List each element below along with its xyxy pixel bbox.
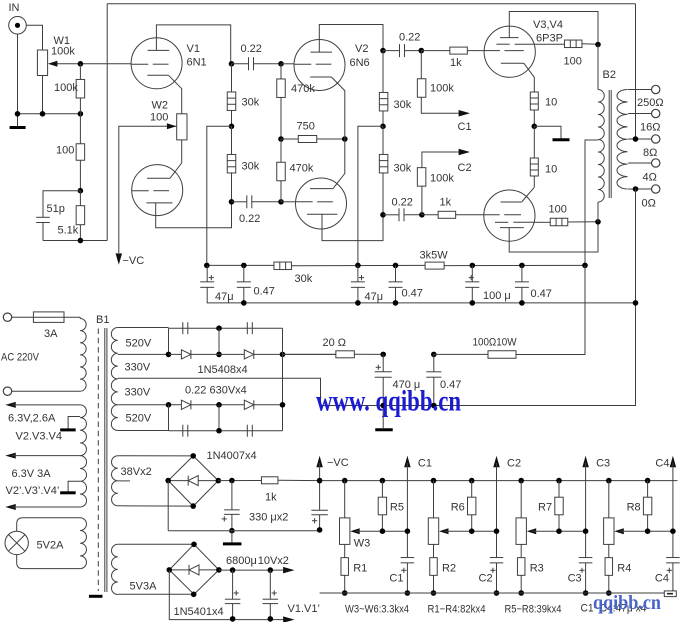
capacitor C1	[401, 557, 415, 559]
node VC gnd	[317, 527, 323, 533]
lamp 5V2A	[5, 531, 28, 554]
capacitor C3	[579, 557, 593, 559]
wire tap 250	[628, 89, 652, 91]
inductor B1 lamp winding	[80, 518, 86, 569]
node grid V2b	[278, 199, 284, 205]
capacitor 0.47 psu	[426, 371, 441, 373]
grid V1b	[132, 190, 149, 192]
node V1a coupling	[229, 61, 235, 67]
ground bias supply	[223, 542, 242, 545]
svg-text:IN: IN	[9, 2, 20, 14]
plus C2	[490, 569, 495, 571]
svg-text:0.47: 0.47	[254, 286, 275, 298]
resistor R6	[468, 497, 476, 515]
arrow C3 top	[582, 456, 589, 467]
plus 330u	[222, 518, 227, 520]
wire 100a to node	[582, 43, 598, 45]
svg-text:750: 750	[297, 121, 315, 133]
wire 1k v3 right	[467, 50, 484, 52]
node gnd 1	[241, 300, 247, 306]
wire C2 shaft	[496, 463, 498, 557]
arrow C2 mid	[459, 149, 470, 156]
wire 0.47 a top	[243, 265, 245, 282]
plus 6800u a	[234, 592, 239, 594]
terminal end box	[664, 591, 676, 597]
node bottom C4	[670, 590, 676, 596]
svg-text:W2: W2	[152, 100, 169, 112]
node bridge2 right	[216, 567, 222, 573]
resistor 30k a	[227, 92, 236, 111]
svg-text:47μ: 47μ	[215, 291, 234, 303]
wire 30k b bottom	[231, 172, 233, 201]
svg-text:6N6: 6N6	[350, 57, 370, 69]
grid V1a	[131, 63, 148, 65]
node rail 1	[204, 263, 210, 269]
arrow heater2 b	[5, 504, 15, 510]
node rail 3	[355, 263, 361, 269]
wire R5 top	[381, 481, 383, 498]
wire rect to 20ohm	[283, 353, 336, 355]
wire 330u bottom	[231, 514, 233, 530]
wire R6 bottom	[471, 515, 473, 531]
node bias rail vc	[317, 478, 323, 484]
wire 10b bottom	[533, 176, 535, 187]
svg-text:R5: R5	[390, 502, 404, 514]
wire W5 top	[520, 481, 522, 518]
inductor B1 HV secondary	[111, 328, 117, 431]
node B+ cap2	[431, 352, 437, 358]
resistor 100 screen V3	[564, 40, 582, 48]
wire 0 ohm ground drop	[434, 189, 636, 406]
arrow C4 top	[670, 456, 677, 467]
resistor R2	[430, 558, 438, 576]
svg-text:8Ω: 8Ω	[643, 147, 657, 159]
svg-text:V3,V4: V3,V4	[533, 19, 563, 31]
wire rect mid v1	[218, 328, 220, 354]
wire 10b top	[533, 126, 535, 158]
svg-text:330V: 330V	[125, 362, 151, 374]
node 6800 a top	[230, 567, 236, 573]
cathode bar V2b	[307, 213, 337, 215]
wire 100ohm to CT riser	[516, 265, 585, 354]
capacitor 0.47 b	[389, 281, 403, 283]
wire 5.1k bottom	[79, 225, 81, 241]
anode lead V1b diagonal	[170, 163, 182, 178]
wire C3 bottom	[585, 563, 587, 593]
wire 47u a bottom	[206, 287, 208, 303]
potentiometer W6	[604, 518, 614, 545]
wire 51p bottom	[42, 223, 44, 241]
svg-text:V1: V1	[187, 43, 200, 55]
svg-text:C4: C4	[655, 458, 669, 470]
wire feedback right drop to 8-ohm tap	[635, 4, 637, 139]
wire C1 shaft	[406, 463, 408, 557]
resistor 1k bias	[261, 477, 278, 484]
node bottom R4	[606, 590, 612, 596]
svg-text:C2: C2	[479, 573, 493, 585]
node bottom C2	[494, 590, 500, 596]
svg-text:16Ω: 16Ω	[640, 122, 660, 134]
wire W1 wiper	[53, 63, 80, 65]
arrow heater1 a	[5, 402, 15, 408]
svg-text:W3~W6:3.3kx4: W3~W6:3.3kx4	[345, 604, 409, 616]
plus 47u b	[359, 277, 364, 279]
wire VC cap bottom	[319, 515, 321, 531]
plus 470u	[376, 366, 381, 368]
wire 0.47 c top	[521, 265, 523, 282]
capacitor 0.22 d	[398, 208, 400, 221]
capacitor 6800u b	[263, 598, 279, 600]
wire rect row3	[169, 404, 283, 406]
wire R7 bottom	[558, 515, 560, 531]
capacitor 100u	[465, 281, 479, 283]
capacitor rect c2	[246, 322, 248, 334]
anode bar V3	[500, 37, 519, 39]
resistor R5	[378, 497, 386, 515]
wire 10a bottom	[533, 110, 535, 126]
wire B2 center tap	[585, 140, 598, 265]
tube V3 output	[484, 26, 535, 77]
inductor B1 heater2	[80, 456, 86, 507]
wire R1 bottom	[344, 575, 346, 593]
capacitor 330u	[224, 509, 240, 511]
resistor 10 V3	[530, 92, 538, 110]
ground B1 core	[89, 595, 103, 598]
wire 30k d top	[382, 126, 384, 155]
resistor R7	[555, 497, 563, 515]
wiper arrow W4	[439, 528, 449, 534]
node rect row3 right	[280, 402, 286, 408]
wire screen V3 to 100	[535, 43, 564, 45]
ground heater2 CT	[60, 491, 76, 494]
resistor 100 cathode V1	[76, 144, 85, 161]
wire 5V bottom tap	[118, 593, 194, 595]
wire rect row4	[169, 430, 283, 432]
wire 100k top	[79, 64, 81, 80]
capacitor C2	[490, 557, 504, 559]
wire cathode gnd jog	[534, 126, 561, 139]
wire 30k a top	[231, 64, 233, 92]
resistor R4	[605, 558, 613, 576]
svg-text:1N5408x4: 1N5408x4	[198, 364, 248, 376]
node bridge1 left	[165, 478, 171, 484]
cathode bar V1a	[147, 74, 168, 76]
node psu gnd junction2	[431, 403, 437, 409]
wire 100 top	[79, 114, 81, 144]
svg-text:6800μ 10Vx2: 6800μ 10Vx2	[226, 555, 289, 567]
node bias rail W2	[431, 478, 437, 484]
wire wiper row 1	[356, 530, 408, 532]
wire 30k a bottom	[231, 111, 233, 127]
wire rect left v2	[168, 405, 170, 431]
wire wiper row 3	[532, 530, 585, 532]
wire W6 top	[608, 481, 610, 518]
inductor B2 primary	[598, 90, 604, 203]
wire R6 top	[471, 481, 473, 498]
wire tap 330a	[118, 353, 169, 355]
plus C4	[667, 569, 672, 571]
resistor R8	[643, 497, 651, 515]
resistor 470k a	[277, 79, 286, 98]
node 330u gnd	[229, 528, 235, 534]
tube V1 upper triode	[131, 38, 182, 89]
resistor 30k b	[227, 154, 236, 173]
wire 30k b top	[231, 126, 233, 155]
wire cap b right	[252, 201, 281, 203]
wire R8 top	[647, 481, 649, 498]
tube V2 upper triode	[294, 40, 345, 91]
svg-text:100 μ: 100 μ	[483, 290, 511, 302]
node 750 left	[278, 136, 284, 142]
capacitor 0.47 c	[515, 281, 529, 283]
wire 0.47 b bottom	[395, 287, 397, 303]
svg-text:30k: 30k	[394, 163, 412, 175]
terminal 4 ohm	[652, 159, 660, 167]
svg-text:0.22 630Vx4: 0.22 630Vx4	[185, 385, 247, 397]
node wiper R6	[469, 528, 475, 534]
svg-text:6P3P: 6P3P	[536, 33, 563, 45]
svg-text:100: 100	[150, 112, 168, 124]
svg-text:30k: 30k	[394, 99, 412, 111]
plus C3	[579, 569, 584, 571]
plus 47u a	[209, 277, 214, 279]
wire C2 bottom	[496, 563, 498, 593]
node grid V1a	[78, 61, 84, 67]
wire 0.47 a bottom	[243, 287, 245, 303]
svg-text:V2: V2	[355, 43, 368, 55]
svg-text:C3: C3	[568, 573, 582, 585]
capacitor rect c4	[246, 425, 248, 437]
wire jack ground drop	[17, 34, 19, 126]
svg-text:6.3V 3A: 6.3V 3A	[12, 468, 52, 480]
wire C4 bottom	[672, 563, 674, 593]
plus C1	[401, 569, 406, 571]
svg-text:B1: B1	[96, 314, 109, 326]
resistor 10 V4	[530, 158, 538, 176]
svg-text:0Ω: 0Ω	[642, 198, 656, 210]
node bias rail R4	[645, 478, 651, 484]
svg-text:330 μx2: 330 μx2	[249, 512, 288, 524]
svg-text:www. qqibb.cn: www. qqibb.cn	[316, 385, 461, 418]
grid V2a	[294, 63, 311, 65]
svg-text:47μ: 47μ	[365, 291, 384, 303]
wire 1k v4 right	[456, 214, 484, 216]
node 330u top	[229, 478, 235, 484]
wiper arrow W2	[167, 123, 177, 129]
capacitor rect c3	[182, 425, 184, 437]
arrow heater2 a	[5, 453, 15, 459]
terminal 250 ohm	[652, 85, 660, 93]
node gnd 6	[633, 300, 639, 306]
node rect row2 left	[166, 352, 172, 358]
node wiper C4 line	[670, 528, 676, 534]
potentiometer W5	[516, 518, 526, 545]
potentiometer W2	[177, 114, 187, 140]
wire to 51p branch	[43, 191, 80, 218]
cathode lead V2b	[322, 214, 383, 240]
capacitor 47u b	[351, 281, 365, 283]
node bias rail W4	[606, 478, 612, 484]
grid V2b	[296, 201, 313, 203]
node rect row3 left	[166, 402, 172, 408]
wire rect mid v2	[218, 405, 220, 431]
wire 47u a top	[206, 265, 208, 282]
node gnd 4	[470, 300, 476, 306]
wire R4 bottom	[608, 575, 610, 593]
capacitor 0.22 a	[248, 57, 250, 70]
wire feedback left drop	[106, 4, 108, 241]
resistor 1k grid V4	[438, 211, 456, 218]
wire 6800b top	[269, 570, 271, 599]
capacitor 0.22 c	[399, 44, 401, 57]
wire 330u gnd drop	[231, 531, 233, 543]
svg-text:520V: 520V	[126, 338, 152, 350]
core B2	[608, 90, 610, 198]
wire bias rail	[320, 480, 678, 482]
wire B2 primary bottom lead	[597, 202, 599, 222]
arrow 5V plus	[283, 567, 294, 574]
wire HV CT	[118, 378, 636, 405]
wire cap c right	[405, 50, 422, 52]
wire heater2 a	[12, 455, 80, 457]
wire 38V mid stub	[118, 480, 130, 482]
wire jack to W1 top	[26, 25, 42, 50]
resistor 3k5W	[425, 262, 444, 269]
node psu gnd junction	[380, 403, 386, 409]
wire 330u top	[231, 481, 233, 510]
anode lead V4	[509, 222, 598, 252]
svg-text:5V2A: 5V2A	[37, 540, 65, 552]
resistor 30k d	[379, 154, 388, 173]
tube V1 lower triode	[132, 165, 183, 216]
inductor B1 38V	[112, 456, 118, 506]
wire 470k a top	[280, 64, 282, 79]
node grid V4 junction	[419, 212, 425, 218]
node bias rail W3	[518, 478, 524, 484]
cathode lead V2a	[331, 77, 344, 139]
wire 6800a top	[232, 570, 234, 599]
wire cap a right	[254, 63, 282, 65]
wire node to 100ohm	[434, 353, 488, 355]
node gnd 5	[519, 300, 525, 306]
core B1 solid	[104, 328, 106, 592]
node bias rail R1	[380, 478, 386, 484]
screen grid V3	[496, 43, 509, 45]
arrow C1 top	[404, 456, 411, 467]
resistor 20 ohm	[336, 351, 355, 358]
node B+ feed 2	[380, 124, 386, 130]
resistor 100k a	[417, 79, 426, 98]
wire wiper row 4	[620, 530, 673, 532]
plus 100u	[469, 277, 474, 279]
wire C1 bottom	[406, 563, 408, 593]
fuse 3A	[33, 312, 64, 323]
svg-text:3k5W: 3k5W	[420, 250, 449, 262]
grid V4	[484, 214, 500, 216]
svg-text:1N5401x4: 1N5401x4	[174, 606, 224, 618]
svg-text:100Ω10W: 100Ω10W	[473, 337, 518, 349]
wire W4 top	[433, 481, 435, 518]
wire 5V top tap	[118, 543, 194, 545]
node grid V2a	[278, 61, 284, 67]
svg-text:1k: 1k	[265, 492, 277, 504]
node wiper R5	[380, 528, 386, 534]
wire V2a grid lead	[281, 63, 294, 65]
wire B+ jog stage1	[207, 126, 232, 265]
terminal 16 ohm	[652, 109, 660, 117]
svg-text:0.47: 0.47	[531, 288, 552, 300]
node wiper C3 line	[583, 528, 589, 534]
wire 1k v4 left	[422, 214, 438, 216]
node rail 7 CT	[582, 263, 588, 269]
wire heater2 CT	[68, 481, 80, 491]
wiper arrow W1	[48, 61, 58, 67]
wire 6800b bottom	[269, 604, 271, 620]
wire C4 shaft	[672, 463, 674, 557]
anode bar V4	[500, 227, 524, 229]
wire 100k bottom	[79, 98, 81, 114]
node rail 2	[241, 263, 247, 269]
wiper arrow W3	[350, 528, 360, 534]
wire tap 0	[628, 188, 652, 190]
node 6800 b top	[268, 567, 274, 573]
cathode bar V3	[501, 62, 524, 64]
anode bar V2a	[311, 51, 333, 53]
terminal 0 ohm	[652, 185, 660, 193]
node j3	[78, 111, 84, 117]
wire 750 left	[281, 138, 298, 140]
wire tap 520a	[118, 327, 169, 329]
svg-text:4Ω: 4Ω	[643, 172, 657, 184]
ground input ground	[10, 126, 26, 129]
capacitor 51p	[36, 216, 50, 218]
bridge rectifier 1N5401	[169, 544, 219, 594]
cathode bar V4	[501, 201, 522, 203]
node bias rail W1	[342, 478, 348, 484]
ground output cathode	[553, 138, 570, 141]
node rail 5	[470, 263, 476, 269]
node wiper C1 line	[405, 528, 411, 534]
svg-text:100: 100	[549, 204, 567, 216]
node bottom C1	[405, 590, 411, 596]
connector IN jack	[9, 17, 27, 35]
cathode lead V1a	[169, 75, 182, 114]
wire 0.47psu top	[433, 354, 435, 371]
diode D3	[181, 400, 191, 409]
svg-text:R8: R8	[627, 502, 641, 514]
arrow -VC down	[116, 253, 123, 264]
potentiometer W4	[428, 518, 438, 545]
resistor 100 screen V4	[550, 218, 568, 226]
wire lamp loop bottom	[17, 555, 80, 569]
wire C3 shaft	[585, 463, 587, 557]
wire R5 bottom	[381, 515, 383, 531]
svg-text:6N1: 6N1	[187, 57, 207, 69]
wire heater1 a	[12, 404, 80, 406]
svg-text:30k: 30k	[242, 161, 260, 173]
wire B+ rail segment2	[291, 264, 425, 266]
node feedback tap	[633, 136, 639, 142]
wire cap b left	[232, 201, 247, 203]
svg-text:C1: C1	[389, 573, 403, 585]
svg-text:20 Ω: 20 Ω	[323, 337, 347, 349]
wire bridge2 left drop	[169, 570, 283, 620]
node bridge1 right	[216, 478, 222, 484]
node rect row3 mid	[216, 402, 222, 408]
bridge rectifier 1N4007	[168, 456, 218, 506]
wire rect row1	[169, 327, 283, 329]
potentiometer W3	[340, 518, 350, 545]
